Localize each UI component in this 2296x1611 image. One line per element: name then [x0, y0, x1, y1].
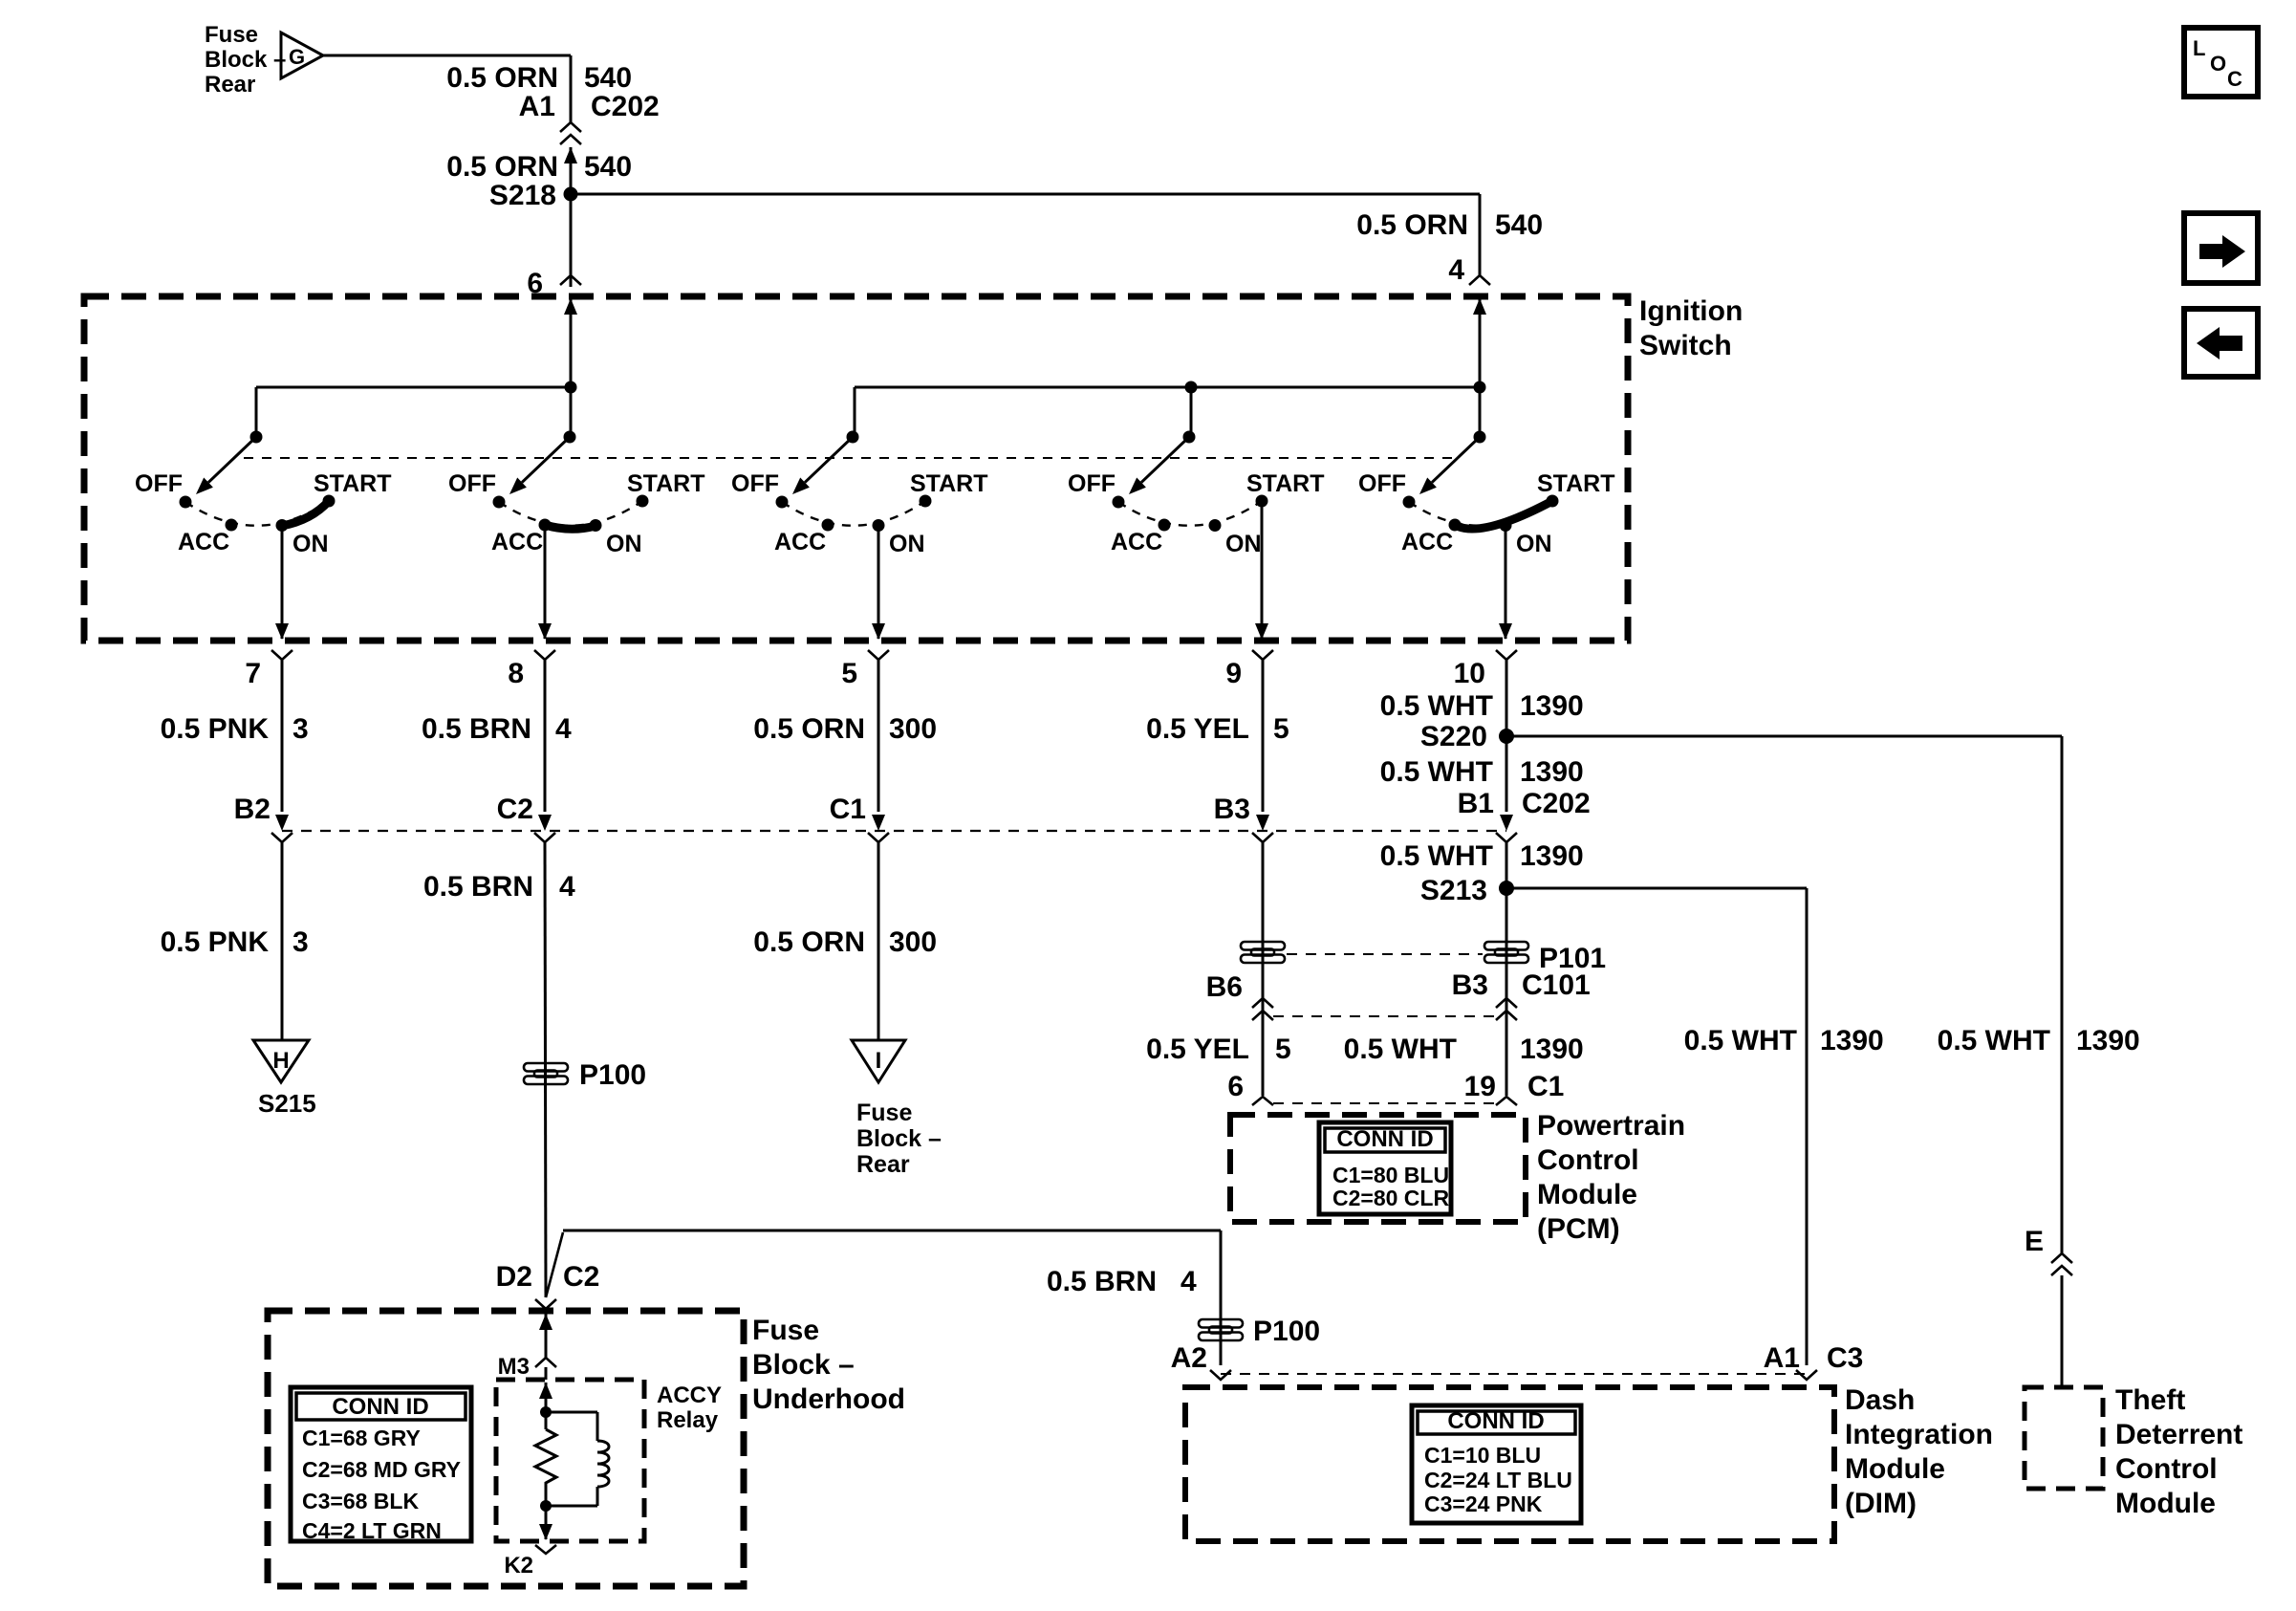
svg-text:START: START [314, 470, 391, 497]
svg-text:Control: Control [2115, 1453, 2218, 1485]
connector P101 dashed tie line [1287, 953, 1483, 955]
wire M3 into ACCY relay [539, 1314, 552, 1330]
wire pin7 to S215 [281, 842, 284, 1040]
svg-text:B3: B3 [1214, 794, 1250, 825]
svg-text:1390: 1390 [2076, 1025, 2140, 1056]
svg-text:G: G [289, 45, 305, 69]
svg-text:ACC: ACC [1401, 529, 1453, 555]
bus wire right segment [855, 386, 1480, 389]
svg-text:Module: Module [1537, 1179, 1637, 1210]
svg-text:0.5 ORN: 0.5 ORN [753, 713, 865, 745]
branch to DIM A2 [546, 1232, 563, 1297]
svg-text:3: 3 [292, 926, 309, 958]
connector C202 dashed line [282, 830, 1506, 832]
wafer positions dashed guide line [244, 457, 1456, 459]
svg-text:C3: C3 [1827, 1342, 1863, 1374]
svg-text:Theft: Theft [2115, 1384, 2185, 1416]
svg-text:540: 540 [584, 151, 632, 183]
relay internal wiring [539, 1382, 552, 1399]
svg-text:C4=2 LT GRN: C4=2 LT GRN [302, 1518, 442, 1543]
svg-text:C202: C202 [591, 91, 660, 122]
pin 6 feed wire inside box [564, 298, 577, 315]
ACCY relay box [496, 1380, 644, 1541]
svg-text:1390: 1390 [1520, 1034, 1584, 1065]
svg-text:0.5 WHT: 0.5 WHT [1380, 690, 1493, 722]
svg-text:0.5 ORN: 0.5 ORN [753, 926, 865, 958]
svg-text:Switch: Switch [1639, 330, 1732, 361]
svg-text:E: E [2025, 1226, 2044, 1257]
power feed triangle G [281, 33, 323, 78]
triangle I to fuse block rear [852, 1040, 905, 1082]
DIM connector dashed line A2-A1 [1221, 1373, 1807, 1375]
svg-text:0.5 BRN: 0.5 BRN [423, 871, 533, 903]
svg-text:Block –: Block – [205, 47, 286, 73]
ignition switch wafer 5 (pin10 IGN) [1474, 431, 1486, 444]
svg-text:L: L [2193, 36, 2205, 60]
bus wire left segment [256, 386, 571, 389]
svg-text:S218: S218 [489, 180, 556, 211]
svg-text:C2: C2 [563, 1261, 599, 1293]
svg-text:1390: 1390 [1520, 840, 1584, 872]
wire pin8 down to fuse block underhood [545, 842, 546, 1297]
ignition switch box [84, 296, 1628, 641]
svg-text:4: 4 [555, 713, 572, 745]
svg-text:C1: C1 [1527, 1071, 1564, 1102]
svg-text:ON: ON [889, 531, 925, 557]
arrow right nav box [2184, 213, 2258, 283]
relay resistor [535, 1429, 556, 1488]
LOC reference box [2184, 28, 2258, 97]
chevron into ignition switch pin 6 [560, 275, 581, 285]
svg-text:0.5 WHT: 0.5 WHT [1938, 1025, 2050, 1056]
fuse block underhood box [268, 1311, 744, 1586]
svg-text:B3: B3 [1452, 969, 1488, 1001]
svg-text:4: 4 [1180, 1266, 1197, 1297]
connector C1 dashed line into PCM [1273, 1102, 1495, 1104]
svg-text:Powertrain: Powertrain [1537, 1110, 1685, 1142]
svg-text:OFF: OFF [448, 470, 496, 497]
svg-text:OFF: OFF [135, 470, 183, 497]
svg-text:B1: B1 [1458, 788, 1494, 819]
svg-text:4: 4 [1448, 254, 1464, 286]
svg-text:7: 7 [245, 658, 261, 689]
powertrain control module box [1230, 1115, 1526, 1222]
ignition switch wafer 1 (pin7 RUN) [250, 431, 263, 444]
inline connector P101 left [1241, 942, 1285, 950]
svg-text:540: 540 [584, 62, 632, 94]
chevron into ignition switch pin 4 [1469, 275, 1490, 285]
svg-text:C: C [2227, 67, 2242, 91]
wire pin10 through C101 to PCM pin19 [1505, 842, 1508, 1096]
inline connector P101 right [1484, 942, 1528, 950]
svg-text:Underhood: Underhood [752, 1383, 905, 1415]
svg-text:A1: A1 [1764, 1342, 1800, 1374]
pin exit chevrons and numbers [271, 650, 292, 660]
svg-text:0.5 PNK: 0.5 PNK [161, 926, 270, 958]
svg-text:C1=80 BLU: C1=80 BLU [1332, 1163, 1449, 1187]
relay coil branch [546, 1411, 597, 1414]
svg-text:Module: Module [1845, 1453, 1945, 1485]
svg-text:8: 8 [508, 658, 524, 689]
svg-text:C2=68 MD GRY: C2=68 MD GRY [302, 1457, 461, 1482]
svg-text:ACC: ACC [178, 529, 229, 555]
wire S218 to right branch [571, 193, 1480, 196]
svg-text:Rear: Rear [205, 72, 255, 98]
svg-text:ACC: ACC [1111, 529, 1162, 555]
svg-text:S215: S215 [258, 1089, 316, 1118]
svg-text:9: 9 [1225, 658, 1242, 689]
svg-text:300: 300 [889, 926, 937, 958]
svg-text:0.5 PNK: 0.5 PNK [161, 713, 270, 745]
svg-text:10: 10 [1454, 658, 1485, 689]
svg-text:0.5 ORN: 0.5 ORN [1356, 209, 1468, 241]
svg-text:Fuse: Fuse [752, 1315, 819, 1346]
svg-text:ACC: ACC [491, 529, 543, 555]
svg-text:(DIM): (DIM) [1845, 1488, 1917, 1519]
ignition switch wafer 4 (pin9 START) [1183, 431, 1196, 444]
svg-text:Deterrent: Deterrent [2115, 1419, 2242, 1450]
svg-text:C202: C202 [1522, 788, 1591, 819]
wire S213 branch to DIM A1 [1506, 887, 1807, 890]
svg-text:1390: 1390 [1520, 756, 1584, 788]
svg-text:K2: K2 [504, 1553, 533, 1578]
svg-text:4: 4 [559, 871, 575, 903]
ground-style triangle H (S215) [253, 1040, 309, 1082]
svg-text:Block –: Block – [752, 1349, 855, 1381]
svg-text:B6: B6 [1206, 971, 1243, 1003]
connector C101 double chevron left [1252, 998, 1273, 1008]
svg-text:ACCY: ACCY [657, 1382, 722, 1408]
underhood conn id table [291, 1387, 471, 1541]
svg-text:OFF: OFF [1068, 470, 1116, 497]
wire pin5 to fuse block rear [877, 842, 880, 1040]
svg-text:0.5 BRN: 0.5 BRN [422, 713, 531, 745]
svg-text:5: 5 [841, 658, 857, 689]
svg-text:A1: A1 [519, 91, 555, 122]
dash integration module box [1185, 1387, 1834, 1541]
svg-text:ON: ON [606, 531, 642, 557]
svg-text:0.5 ORN: 0.5 ORN [446, 62, 558, 94]
svg-text:Ignition: Ignition [1639, 295, 1743, 327]
svg-text:C101: C101 [1522, 969, 1591, 1001]
DIM conn id table [1412, 1405, 1581, 1523]
svg-text:0.5 BRN: 0.5 BRN [1047, 1266, 1157, 1297]
svg-text:C2=80 CLR: C2=80 CLR [1332, 1186, 1449, 1210]
svg-text:ACC: ACC [774, 529, 826, 555]
svg-text:5: 5 [1275, 1034, 1291, 1065]
svg-text:Block –: Block – [856, 1125, 942, 1152]
svg-text:OFF: OFF [1358, 470, 1406, 497]
svg-text:C3=24 PNK: C3=24 PNK [1424, 1491, 1543, 1516]
svg-text:P100: P100 [579, 1059, 646, 1091]
svg-text:CONN ID: CONN ID [332, 1394, 428, 1420]
wire G to S218 corner [323, 54, 571, 57]
svg-text:ON: ON [1225, 531, 1262, 557]
ignition switch wafer 2 (pin8 ACCY) [564, 431, 576, 444]
connector C101 double chevron right [1496, 998, 1517, 1008]
svg-text:A2: A2 [1171, 1342, 1207, 1374]
svg-text:Fuse: Fuse [856, 1099, 912, 1126]
inline connector P100 [524, 1063, 568, 1072]
svg-text:6: 6 [1227, 1071, 1244, 1102]
PCM conn id table [1319, 1122, 1451, 1214]
wire S220 branch to theft deterrent module [1506, 735, 2062, 738]
svg-text:19: 19 [1464, 1071, 1496, 1102]
svg-text:OFF: OFF [731, 470, 779, 497]
svg-text:B2: B2 [234, 794, 271, 825]
svg-text:P100: P100 [1253, 1316, 1320, 1347]
svg-text:Control: Control [1537, 1144, 1639, 1176]
svg-text:CONN ID: CONN ID [1336, 1126, 1433, 1152]
svg-text:0.5 WHT: 0.5 WHT [1380, 756, 1493, 788]
theft deterrent control module box [2025, 1387, 2103, 1489]
svg-text:0.5 WHT: 0.5 WHT [1684, 1025, 1797, 1056]
svg-text:START: START [1246, 470, 1324, 497]
svg-text:C3=68 BLK: C3=68 BLK [302, 1489, 419, 1513]
svg-text:Fuse: Fuse [205, 22, 258, 48]
svg-text:START: START [910, 470, 987, 497]
svg-text:1390: 1390 [1820, 1025, 1884, 1056]
svg-text:0.5 WHT: 0.5 WHT [1344, 1034, 1457, 1065]
svg-text:S213: S213 [1420, 875, 1487, 906]
svg-text:(PCM): (PCM) [1537, 1213, 1620, 1245]
svg-text:300: 300 [889, 713, 937, 745]
svg-text:Rear: Rear [856, 1151, 910, 1178]
svg-text:1390: 1390 [1520, 690, 1584, 722]
svg-text:3: 3 [292, 713, 309, 745]
svg-text:Relay: Relay [657, 1407, 719, 1433]
svg-text:C2: C2 [497, 794, 533, 825]
svg-text:C1: C1 [830, 794, 866, 825]
svg-text:D2: D2 [496, 1261, 532, 1293]
svg-text:O: O [2210, 52, 2226, 76]
svg-text:540: 540 [1495, 209, 1543, 241]
svg-text:C2=24 LT BLU: C2=24 LT BLU [1424, 1468, 1572, 1492]
svg-text:H: H [272, 1048, 289, 1074]
svg-text:ON: ON [292, 531, 329, 557]
svg-text:0.5 WHT: 0.5 WHT [1380, 840, 1493, 872]
svg-text:0.5 YEL: 0.5 YEL [1146, 713, 1249, 745]
svg-text:0.5 YEL: 0.5 YEL [1146, 1034, 1249, 1065]
svg-text:START: START [1537, 470, 1614, 497]
svg-text:0.5 ORN: 0.5 ORN [446, 151, 558, 183]
ignition switch wafer 3 (pin5) [847, 431, 859, 444]
wire pin9 to PCM pin6 [1262, 842, 1265, 1096]
svg-text:Dash: Dash [1845, 1384, 1915, 1416]
svg-text:Integration: Integration [1845, 1419, 1993, 1450]
relay output arrow K2 [539, 1524, 552, 1540]
arrow left nav box [2184, 309, 2258, 377]
svg-text:START: START [627, 470, 704, 497]
svg-text:ON: ON [1516, 531, 1552, 557]
svg-text:5: 5 [1273, 713, 1289, 745]
svg-text:I: I [876, 1048, 882, 1074]
inline connector P100 lower [1199, 1319, 1243, 1328]
svg-text:C1=10 BLU: C1=10 BLU [1424, 1443, 1541, 1468]
svg-text:M3: M3 [498, 1354, 530, 1380]
connector crossing at C202 (double chevron) [560, 122, 581, 132]
pin 4 feed wire inside box [1473, 298, 1486, 315]
connector C101 dashed line [1273, 1015, 1495, 1017]
bus junction dots [565, 381, 577, 394]
svg-text:S220: S220 [1420, 721, 1487, 752]
svg-text:Module: Module [2115, 1488, 2216, 1519]
svg-text:CONN ID: CONN ID [1447, 1408, 1544, 1434]
svg-text:C1=68 GRY: C1=68 GRY [302, 1426, 421, 1450]
